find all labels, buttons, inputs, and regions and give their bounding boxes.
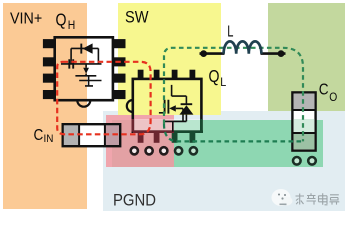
QH pins left <box>43 39 55 99</box>
CO top terminal <box>294 94 315 110</box>
svg-text:SW: SW <box>125 8 149 26</box>
red input cap loop <box>57 62 150 135</box>
watermark text (CJK approximated with strokes) <box>296 193 340 205</box>
QH body diode <box>83 43 93 53</box>
capacitor CO body <box>292 92 315 150</box>
net region VOUT (olive green) <box>268 3 345 111</box>
CO bottom terminal <box>294 133 315 149</box>
svg-text:L: L <box>220 77 227 89</box>
via 2 <box>146 147 153 154</box>
via 1 <box>131 147 138 154</box>
svg-text:C: C <box>34 127 44 144</box>
QL pins bottom <box>138 133 144 143</box>
green loop top+right+left (output current loop) <box>164 48 303 142</box>
QL body diode <box>179 105 193 114</box>
QL source arrow <box>169 105 176 111</box>
QL internal mosfet+diode symbol <box>159 85 192 132</box>
svg-text:Q: Q <box>56 10 67 30</box>
QH pins right <box>113 39 126 99</box>
via 4 <box>175 147 182 154</box>
node dot left <box>200 50 207 57</box>
QH source arrow <box>83 68 89 74</box>
QL interior light strip <box>134 119 200 131</box>
svg-text:L: L <box>227 23 233 40</box>
via 3 <box>160 147 167 154</box>
net region PGND (light blue) <box>103 111 345 211</box>
inductor L coil <box>224 41 262 53</box>
QH internal mosfet+diode symbol <box>61 44 102 86</box>
transistor QH package body <box>55 37 113 106</box>
QH notch <box>77 100 90 107</box>
inductor L wire <box>200 52 286 55</box>
transistor QL package body <box>133 79 202 132</box>
svg-text:PGND: PGND <box>113 191 156 210</box>
QL notch <box>127 100 133 112</box>
ground copper band (teal) <box>112 120 323 167</box>
svg-text:Q: Q <box>209 66 220 86</box>
node dot right <box>278 50 285 57</box>
net region SW (yellow) <box>118 3 221 115</box>
svg-text:O: O <box>329 92 337 104</box>
CIN right terminal <box>105 125 119 145</box>
watermark logo <box>272 189 293 206</box>
CO lower body tint <box>294 119 315 133</box>
net region VIN+ (orange) <box>3 3 87 209</box>
CIN left terminal <box>64 125 79 145</box>
via 7 <box>308 157 316 165</box>
svg-text:VIN+: VIN+ <box>10 11 42 28</box>
green loop bottom over teal <box>164 124 303 141</box>
svg-text:C: C <box>319 81 329 98</box>
svg-text:H: H <box>68 20 76 32</box>
QL pins top <box>138 70 196 79</box>
capacitor CIN body <box>63 124 120 146</box>
via 6 <box>293 157 301 165</box>
via 5 <box>190 147 197 154</box>
QL tinted edges over copper <box>132 119 135 132</box>
ground island (pink) <box>106 115 174 167</box>
svg-text:IN: IN <box>44 133 54 145</box>
